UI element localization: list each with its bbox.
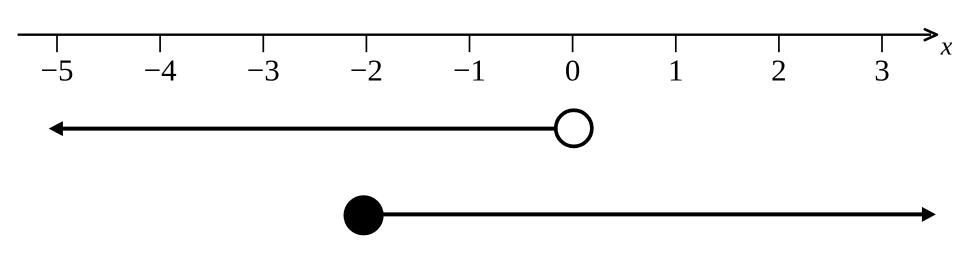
- svg-text:−3: −3: [247, 53, 280, 88]
- svg-text:0: 0: [565, 53, 581, 88]
- number line axis: [18, 34, 931, 36]
- open circle at 0: [556, 110, 592, 146]
- tick -4: [159, 35, 161, 53]
- axis arrowhead (right chevron): [925, 29, 937, 40]
- svg-text:−1: −1: [453, 53, 486, 88]
- svg-text:−5: −5: [41, 53, 74, 88]
- tick 2: [778, 35, 780, 53]
- tick -1: [469, 35, 471, 53]
- ray x &lt; 0 : wire: [61, 127, 555, 131]
- svg-text:1: 1: [668, 53, 684, 88]
- tick 1: [675, 35, 677, 53]
- tick 0: [572, 35, 574, 53]
- ray x &gt;= -2 : wire: [363, 212, 923, 216]
- ray x &lt; 0 : left arrowhead: [49, 121, 63, 136]
- tick 3: [881, 35, 883, 53]
- svg-text:3: 3: [874, 53, 890, 88]
- svg-text:x: x: [940, 32, 953, 61]
- ray x &gt;= -2 : right arrowhead: [922, 207, 936, 222]
- svg-text:2: 2: [771, 53, 787, 88]
- svg-text:−2: −2: [350, 53, 383, 88]
- tick -2: [365, 35, 367, 53]
- svg-text:−4: −4: [144, 53, 177, 88]
- tick -3: [262, 35, 264, 53]
- tick -5: [56, 35, 58, 53]
- filled circle at -2: [344, 195, 384, 235]
